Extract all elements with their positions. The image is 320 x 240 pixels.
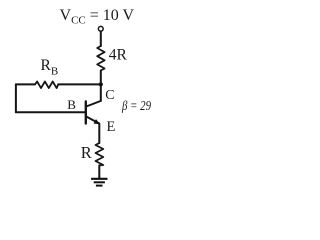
svg-text:4R: 4R bbox=[109, 47, 128, 64]
svg-text:E: E bbox=[107, 119, 116, 135]
svg-text:C: C bbox=[105, 88, 114, 103]
svg-text:R: R bbox=[81, 143, 92, 162]
svg-text:B: B bbox=[67, 97, 76, 112]
svg-text:VCC = 10 V: VCC = 10 V bbox=[60, 7, 135, 26]
svg-text:β = 29: β = 29 bbox=[121, 98, 151, 113]
svg-text:RB: RB bbox=[41, 57, 59, 78]
